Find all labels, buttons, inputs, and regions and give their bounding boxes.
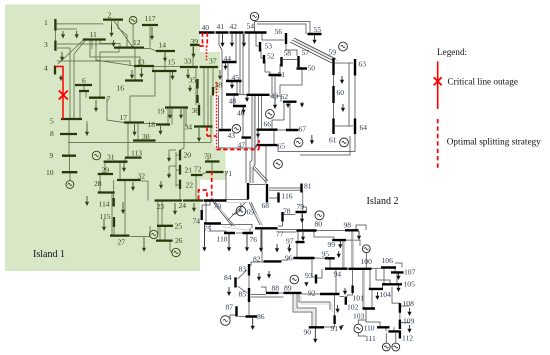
svg-text:114: 114	[99, 200, 110, 209]
svg-text:65: 65	[278, 142, 286, 151]
svg-text:7: 7	[107, 95, 111, 104]
svg-text:72: 72	[194, 165, 202, 174]
svg-text:58: 58	[284, 49, 292, 58]
svg-text:27: 27	[118, 238, 126, 247]
svg-text:75: 75	[204, 225, 212, 234]
svg-text:103: 103	[353, 312, 365, 321]
svg-text:56: 56	[275, 27, 283, 36]
svg-text:74: 74	[193, 217, 201, 226]
svg-text:40: 40	[202, 23, 210, 32]
svg-text:Island 1: Island 1	[33, 249, 65, 260]
svg-text:Island 2: Island 2	[367, 196, 399, 207]
svg-text:68: 68	[262, 201, 270, 210]
svg-text:44: 44	[224, 54, 232, 63]
svg-text:73: 73	[204, 152, 212, 161]
svg-text:30: 30	[142, 132, 150, 141]
svg-text:46: 46	[237, 109, 245, 118]
svg-text:45: 45	[232, 73, 240, 82]
svg-text:55: 55	[314, 25, 322, 34]
svg-text:23: 23	[157, 202, 165, 211]
svg-text:32: 32	[138, 172, 146, 181]
svg-text:3: 3	[44, 40, 48, 49]
svg-text:105: 105	[404, 280, 416, 289]
svg-text:8: 8	[50, 129, 54, 138]
svg-text:11: 11	[90, 30, 98, 39]
svg-text:Optimal splitting strategy: Optimal splitting strategy	[447, 137, 541, 147]
svg-text:31: 31	[107, 153, 115, 162]
svg-text:116: 116	[282, 192, 293, 201]
svg-text:61: 61	[329, 136, 337, 145]
svg-text:19: 19	[157, 107, 165, 116]
svg-text:69: 69	[247, 208, 255, 217]
svg-text:108: 108	[403, 299, 415, 308]
svg-text:107: 107	[404, 268, 416, 277]
svg-text:13: 13	[137, 58, 145, 67]
svg-text:33: 33	[184, 57, 192, 66]
svg-text:37: 37	[209, 57, 217, 66]
svg-text:49: 49	[271, 92, 279, 101]
svg-text:64: 64	[360, 123, 368, 132]
svg-text:80: 80	[315, 220, 323, 229]
svg-text:110: 110	[364, 324, 375, 333]
svg-text:112: 112	[402, 334, 413, 343]
svg-text:Legend:: Legend:	[437, 47, 467, 57]
svg-text:50: 50	[308, 64, 316, 73]
svg-text:21: 21	[185, 166, 193, 175]
svg-text:109: 109	[403, 317, 415, 326]
svg-text:70: 70	[214, 202, 222, 211]
svg-text:98: 98	[344, 221, 352, 230]
svg-text:39: 39	[191, 37, 199, 46]
svg-text:89: 89	[284, 284, 292, 293]
svg-text:26: 26	[175, 236, 183, 245]
svg-text:71: 71	[225, 169, 233, 178]
svg-text:99: 99	[328, 240, 336, 249]
svg-text:63: 63	[359, 60, 367, 69]
svg-text:38: 38	[215, 81, 223, 90]
svg-text:57: 57	[302, 48, 310, 57]
svg-text:20: 20	[184, 151, 192, 160]
svg-text:43: 43	[228, 131, 236, 140]
svg-text:92: 92	[308, 289, 316, 298]
svg-text:101: 101	[353, 294, 365, 303]
svg-text:88: 88	[272, 284, 280, 293]
svg-text:79: 79	[297, 202, 305, 211]
svg-text:41: 41	[217, 22, 225, 31]
svg-text:22: 22	[186, 181, 194, 190]
svg-text:85: 85	[239, 290, 247, 299]
svg-text:111: 111	[365, 334, 376, 343]
svg-text:25: 25	[175, 222, 183, 231]
svg-text:10: 10	[46, 168, 54, 177]
svg-text:94: 94	[334, 270, 342, 279]
svg-text:87: 87	[226, 303, 234, 312]
svg-text:54: 54	[247, 22, 255, 31]
svg-text:102: 102	[347, 303, 359, 312]
svg-text:84: 84	[224, 273, 232, 282]
svg-text:12: 12	[133, 38, 141, 47]
svg-text:52: 52	[267, 52, 275, 61]
svg-text:15: 15	[168, 58, 176, 67]
svg-text:100: 100	[361, 257, 373, 266]
svg-text:60: 60	[337, 88, 345, 97]
svg-text:35: 35	[189, 76, 197, 85]
svg-text:115: 115	[100, 212, 111, 221]
svg-text:36: 36	[192, 106, 200, 115]
svg-text:104: 104	[380, 290, 392, 299]
svg-text:90: 90	[304, 328, 312, 337]
svg-text:83: 83	[239, 265, 247, 274]
svg-text:96: 96	[285, 254, 293, 263]
svg-text:29: 29	[102, 166, 110, 175]
svg-text:16: 16	[117, 84, 125, 93]
svg-text:28: 28	[94, 179, 102, 188]
svg-text:77: 77	[276, 230, 284, 239]
svg-text:42: 42	[230, 22, 238, 31]
svg-text:48: 48	[229, 97, 237, 106]
svg-text:53: 53	[265, 42, 273, 51]
svg-text:67: 67	[299, 125, 307, 134]
svg-text:97: 97	[286, 237, 294, 246]
svg-text:91: 91	[331, 324, 339, 333]
svg-text:81: 81	[304, 182, 312, 191]
svg-text:Critical line outage: Critical line outage	[448, 77, 518, 87]
svg-text:59: 59	[329, 48, 337, 57]
svg-text:5: 5	[50, 117, 54, 126]
svg-text:2: 2	[108, 11, 112, 20]
svg-text:117: 117	[145, 14, 156, 23]
svg-text:76: 76	[250, 235, 258, 244]
svg-text:113: 113	[131, 149, 142, 158]
svg-text:66: 66	[264, 120, 272, 129]
svg-text:95: 95	[322, 250, 330, 259]
svg-text:47: 47	[238, 141, 246, 150]
svg-text:4: 4	[44, 64, 48, 73]
svg-text:24: 24	[179, 201, 187, 210]
svg-text:14: 14	[159, 41, 167, 50]
svg-text:17: 17	[120, 113, 128, 122]
svg-text:86: 86	[257, 312, 265, 321]
svg-text:9: 9	[50, 151, 54, 160]
svg-text:34: 34	[185, 123, 193, 132]
svg-text:6: 6	[82, 76, 86, 85]
svg-text:1: 1	[44, 18, 48, 27]
svg-text:62: 62	[281, 92, 289, 101]
svg-text:82: 82	[253, 255, 261, 264]
svg-text:106: 106	[382, 256, 394, 265]
svg-text:18: 18	[148, 120, 156, 129]
svg-text:118: 118	[217, 235, 228, 244]
svg-text:93: 93	[305, 271, 313, 280]
svg-text:51: 51	[278, 70, 286, 79]
svg-text:78: 78	[283, 207, 291, 216]
